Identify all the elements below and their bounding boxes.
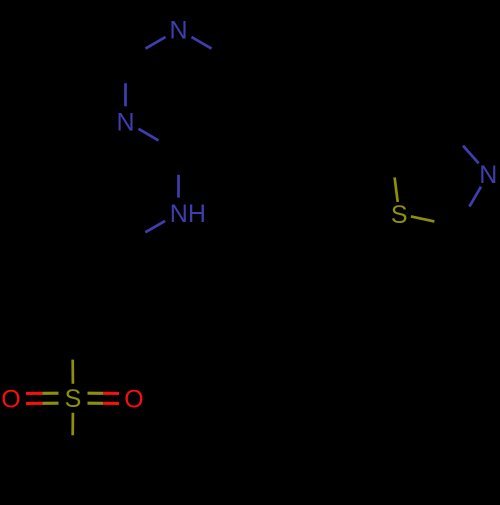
bond S10-O2 half O2 [103,402,119,405]
svg-text:N: N [169,17,187,45]
bond S10-O2 half S10 [88,392,104,395]
bond C3p-S10 half S10 [71,360,74,384]
svg-text:S: S [391,201,408,229]
bond N3-C4 half N3 [139,129,159,141]
svg-text:O: O [1,385,20,413]
bond C5t-S1t half S1t [395,177,398,202]
bond C2-N3 half N3 [124,83,127,106]
bond S10-O1 half S10 [42,402,58,405]
bond S1t-C2t half S1t [411,216,435,221]
bond S10-O2 half S10 [88,402,104,405]
bond S10-C11 half S10 [71,413,74,436]
bond C4-N9 half N9 [177,175,180,198]
bond S10-O2 half O2 [103,392,119,395]
bond S10-O1 half O1 [26,392,42,395]
svg-text:O: O [124,385,143,413]
svg-text:S: S [65,385,82,413]
bond C8a-N1 half N1 [192,37,212,49]
bond C2t-N3t half N3t [469,187,481,207]
svg-text:N: N [116,108,134,136]
bond N9-C1p half N9 [145,221,165,232]
bond S10-O1 half S10 [42,392,58,395]
bond S10-O1 half O1 [26,402,42,405]
bond N3t-C4t half N3t [463,146,479,164]
svg-text:N: N [479,161,497,189]
svg-text:NH: NH [170,200,206,228]
bond N1-C2 half N1 [146,37,166,49]
